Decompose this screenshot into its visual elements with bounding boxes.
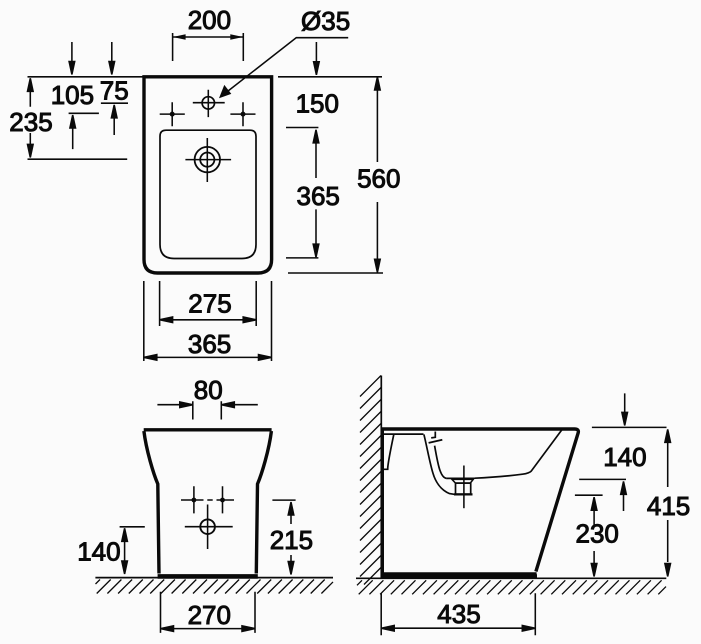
dim 560 line	[375, 77, 381, 272]
dim 435 line	[381, 625, 535, 631]
dim 105 arrow above top	[69, 42, 75, 75]
dim 140 double arrow (front)	[122, 528, 128, 574]
svg-text:150: 150	[296, 89, 339, 119]
svg-text:275: 275	[188, 289, 231, 319]
svg-text:365: 365	[188, 329, 231, 359]
faucet cross stroke	[429, 440, 443, 443]
dim 230 down arrow	[591, 551, 597, 577]
bowl back outer line	[424, 434, 454, 494]
dim 140 reference line (front)	[120, 526, 145, 528]
front ground line	[95, 577, 333, 579]
inner rim top extension line	[286, 127, 318, 129]
bidet inner rim	[160, 130, 256, 258]
dim 215 down arrow	[288, 555, 294, 575]
dim 215 up arrow	[288, 502, 294, 524]
front fixing holes centerline	[181, 486, 234, 513]
left reference line (top edge level)	[28, 76, 143, 78]
dim 365 up arrow	[313, 130, 319, 178]
svg-text:200: 200	[188, 5, 231, 35]
bowl back inner line	[435, 446, 447, 479]
drain flange	[452, 479, 473, 483]
tap hole circle	[202, 97, 214, 109]
dim 140 down arrow (side)	[622, 393, 628, 425]
drain body	[456, 483, 471, 494]
dim 80 arrows	[157, 402, 257, 408]
svg-text:230: 230	[576, 519, 619, 549]
side top extension line	[592, 426, 667, 428]
dim 75 arrow above top	[109, 42, 115, 75]
bottom extension lines of plan	[144, 281, 272, 361]
dim 230 up arrow	[591, 497, 597, 525]
svg-text:105: 105	[51, 80, 94, 110]
svg-text:435: 435	[437, 599, 480, 629]
svg-text:140: 140	[77, 537, 120, 567]
svg-text:215: 215	[270, 525, 313, 555]
drain bottom line	[454, 493, 473, 495]
side base line	[381, 574, 537, 579]
svg-text:415: 415	[647, 491, 690, 521]
front drain circle	[200, 519, 215, 534]
svg-text:Ø35: Ø35	[301, 6, 350, 36]
drain level reference line	[28, 158, 128, 160]
dim 105 reference line (fixing hole level) and up arrow	[69, 113, 99, 149]
svg-text:560: 560	[357, 163, 400, 193]
fixing hole right	[230, 102, 255, 126]
svg-text:140: 140	[603, 442, 646, 472]
dim 365 bottom line	[144, 355, 272, 361]
dim 140 up arrow (side)	[621, 481, 627, 511]
front outline	[144, 430, 272, 574]
tap hole crosshair	[193, 90, 225, 117]
faucet centerline tick	[431, 432, 435, 438]
bidet plan outline	[144, 77, 272, 273]
side ground hatching	[357, 580, 666, 594]
dim 75 reference line (tap hole level) and up arrow	[101, 103, 128, 135]
dim 270 line	[161, 626, 256, 632]
svg-text:75: 75	[100, 76, 129, 106]
front ground hatching	[96, 580, 334, 594]
front base line	[158, 574, 258, 579]
drain crosshair	[185, 138, 231, 182]
dim 150 down arrow	[314, 42, 320, 75]
dim 80 extension lines	[193, 401, 222, 419]
right top extension line	[278, 76, 382, 78]
drain centerline	[463, 466, 465, 509]
front fixing hole dots	[192, 498, 197, 503]
svg-text:270: 270	[188, 600, 231, 630]
dimension 200	[173, 33, 244, 61]
back cavity left side	[384, 434, 394, 469]
svg-text:365: 365	[297, 181, 340, 211]
bowl underside line	[447, 430, 562, 479]
wall hatching	[360, 376, 381, 585]
dim 215 extension line	[272, 499, 295, 501]
dim 415 line	[665, 429, 671, 576]
bottom right extension line	[288, 272, 383, 274]
svg-text:80: 80	[194, 375, 223, 405]
dim 140 reference line (side)	[579, 478, 626, 480]
dim 365 down arrow	[313, 209, 319, 257]
drain circle	[195, 147, 220, 172]
side inner top line	[384, 433, 424, 435]
side outline	[381, 429, 578, 574]
dim 435 extension lines	[381, 593, 535, 635]
fixing hole left	[160, 102, 185, 126]
side ground line	[356, 577, 666, 579]
dim 235 arrows	[28, 78, 34, 157]
wall line	[380, 376, 382, 579]
inner rim bottom extension line	[286, 257, 318, 259]
label Ø35 leader	[219, 38, 348, 98]
dim 270 extension lines	[161, 592, 256, 633]
front drain crosshair	[185, 505, 233, 550]
svg-text:235: 235	[9, 107, 52, 137]
dim 275 line	[160, 317, 257, 323]
dim 230 reference line	[575, 494, 603, 496]
